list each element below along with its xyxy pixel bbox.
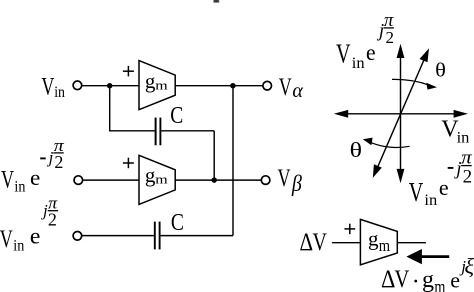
svg-text:g: g	[422, 267, 434, 292]
svg-text:β: β	[291, 171, 302, 196]
svg-text:α: α	[292, 80, 303, 102]
svg-text:·: ·	[412, 269, 420, 292]
svg-text:e: e	[366, 40, 376, 65]
wire	[175, 179, 261, 181]
wire	[109, 86, 111, 132]
svg-text:in: in	[424, 192, 437, 209]
svg-text:in: in	[54, 84, 65, 101]
svg-text:θ: θ	[350, 138, 362, 162]
label Vin phasor	[441, 116, 469, 146]
phasor vertical axis	[397, 44, 405, 184]
plus input gm3	[344, 224, 355, 235]
svg-text:V: V	[336, 38, 351, 68]
svg-text:in: in	[352, 55, 365, 72]
svg-text:V: V	[395, 266, 410, 292]
label Vin e^-jpi/2 phasor	[409, 147, 473, 209]
svg-text:m: m	[434, 277, 445, 292]
label Vin	[41, 73, 65, 101]
svg-text:m: m	[155, 77, 167, 92]
wire	[161, 130, 214, 132]
op-amp gm2	[139, 155, 175, 204]
svg-text:2: 2	[48, 210, 57, 230]
terminal Vin	[73, 81, 82, 90]
svg-text:in: in	[457, 129, 470, 146]
node A	[107, 83, 113, 89]
wire	[161, 235, 234, 237]
plus input gm1	[123, 66, 134, 77]
wire	[82, 235, 154, 237]
label Vin e^jpi/2	[0, 194, 58, 255]
svg-text:g: g	[145, 69, 156, 93]
svg-text:Δ: Δ	[381, 266, 395, 292]
terminal Vin+j	[73, 232, 82, 241]
arc theta top	[392, 79, 437, 89]
svg-text:g: g	[145, 163, 156, 187]
label Vin e^-jpi/2	[1, 136, 64, 196]
label Valpha	[279, 74, 304, 102]
svg-text:2: 2	[463, 167, 473, 188]
op-amp gm3	[360, 219, 397, 264]
node C	[211, 177, 217, 183]
phasor horizontal axis	[334, 110, 468, 118]
svg-text:V: V	[409, 177, 424, 207]
wire	[83, 179, 139, 181]
svg-text:C: C	[171, 210, 184, 236]
wire	[109, 130, 155, 132]
terminal Vbeta	[261, 176, 270, 185]
wire	[232, 86, 234, 236]
capacitor C2	[155, 222, 160, 250]
label theta top	[435, 60, 446, 82]
svg-text:j: j	[47, 148, 54, 167]
label C1	[170, 103, 183, 129]
svg-text:V: V	[0, 226, 13, 253]
wire	[213, 131, 215, 180]
wire	[332, 242, 361, 244]
svg-text:θ: θ	[435, 60, 446, 82]
wire	[175, 85, 262, 87]
svg-text:2: 2	[54, 152, 63, 172]
label dV	[300, 229, 327, 256]
svg-text:V: V	[279, 74, 292, 101]
arc theta bottom	[363, 138, 410, 148]
svg-text:m: m	[379, 236, 390, 255]
label C2	[171, 210, 184, 236]
stray caption mark	[213, 0, 219, 3]
svg-text:V: V	[313, 229, 327, 256]
label Vin e^jpi/2 phasor	[336, 10, 394, 72]
svg-text:in: in	[14, 179, 25, 196]
svg-text:m: m	[155, 172, 167, 187]
svg-text:e: e	[439, 175, 449, 200]
svg-text:2: 2	[386, 28, 395, 47]
phasor rotated vector	[373, 48, 429, 178]
terminal Valpha	[263, 81, 272, 90]
svg-text:C: C	[170, 103, 183, 129]
label dV gm e^jxi	[381, 254, 474, 292]
capacitor C1	[156, 118, 161, 146]
svg-text:in: in	[13, 238, 24, 255]
svg-text:V: V	[41, 73, 54, 100]
svg-text:e: e	[30, 165, 40, 190]
feedback arrow	[406, 249, 449, 264]
label Vbeta	[278, 165, 303, 196]
wire	[397, 242, 426, 244]
svg-text:g: g	[368, 227, 379, 251]
node B	[230, 83, 236, 89]
svg-text:ξ: ξ	[465, 254, 474, 279]
svg-text:e: e	[30, 223, 41, 248]
svg-text:V: V	[1, 167, 14, 194]
op-amp gm1	[139, 61, 175, 110]
terminal Vin-j	[74, 176, 83, 185]
wire	[82, 85, 139, 87]
plus input gm2	[123, 158, 134, 169]
label theta bottom	[350, 138, 362, 162]
svg-text:V: V	[278, 165, 291, 192]
svg-text:Δ: Δ	[300, 229, 314, 256]
svg-text:e: e	[450, 268, 460, 292]
